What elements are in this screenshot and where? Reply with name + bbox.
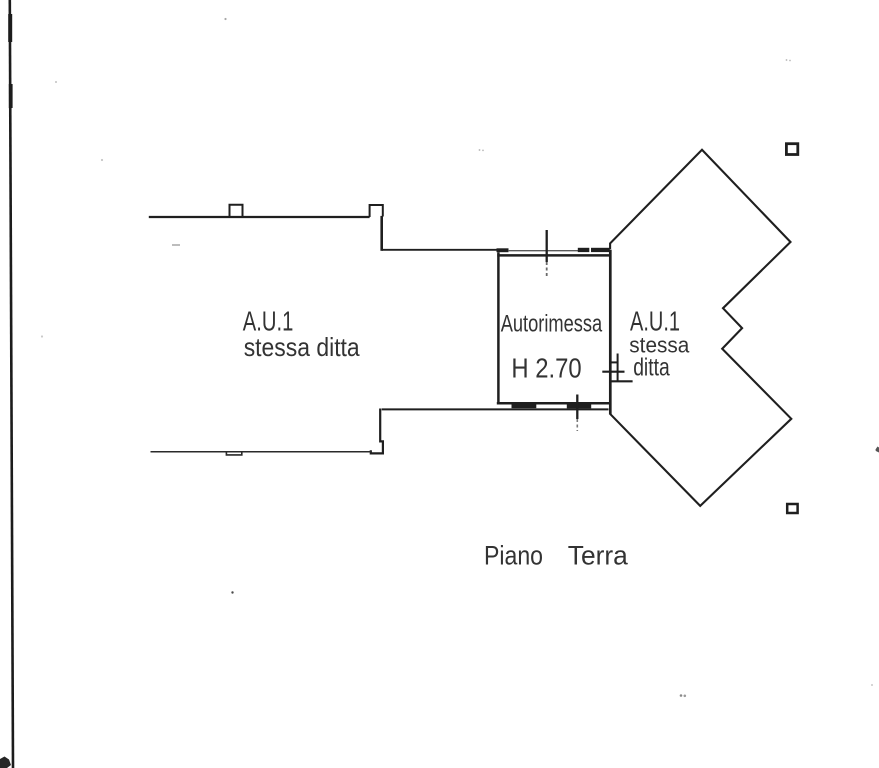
svg-text:ditta: ditta bbox=[633, 354, 670, 382]
right wing outline bbox=[610, 150, 791, 506]
section tick top bbox=[546, 230, 548, 262]
marker square top bbox=[786, 144, 797, 155]
svg-text:Autorimessa: Autorimessa bbox=[501, 311, 603, 338]
top room: top wall bbox=[149, 216, 370, 218]
garage right wall bbox=[609, 250, 612, 415]
svg-text:H 2.70: H 2.70 bbox=[511, 352, 581, 383]
wall blob at garage top-left bbox=[497, 248, 509, 252]
svg-text:Terra: Terra bbox=[568, 540, 629, 570]
garage bottom wall bbox=[497, 402, 611, 405]
wall to garage, upper line bbox=[382, 249, 498, 251]
bottom room: bottom wall bbox=[151, 451, 372, 453]
wall fill bottom right bbox=[567, 403, 591, 408]
top room: door notch left bbox=[230, 205, 243, 217]
faint top line over garage bbox=[508, 250, 578, 252]
stray dots bottom middle bbox=[680, 694, 683, 697]
step symbol bar 2 bbox=[602, 371, 624, 373]
svg-text:stessa ditta: stessa ditta bbox=[244, 332, 360, 362]
step symbol bar 3 bbox=[610, 380, 632, 382]
scan edge line bbox=[10, 0, 13, 768]
stray faint dot left2 bbox=[41, 335, 43, 337]
stray faint dot left-top bbox=[55, 81, 57, 83]
garage left wall bbox=[497, 252, 500, 404]
marker square bottom bbox=[787, 504, 797, 513]
bottom room: right wall jog bbox=[371, 409, 383, 454]
stray dot bottom-left area bbox=[231, 591, 233, 593]
step symbol bar 1 bbox=[609, 361, 618, 363]
stray faint dots mid-top bbox=[479, 149, 481, 151]
svg-text:Piano: Piano bbox=[484, 540, 543, 570]
garage top wall bbox=[497, 254, 611, 257]
top room: right wall bbox=[380, 216, 383, 251]
stray faint dot top bbox=[224, 18, 226, 20]
wall fill top right bbox=[591, 248, 610, 252]
bottom room: door notch down bbox=[226, 452, 241, 455]
section tick bottom bbox=[576, 395, 578, 420]
scan corner blob bottom-left bbox=[0, 757, 11, 768]
step symbol vertical bbox=[617, 354, 619, 383]
section tick bottom faint tail bbox=[576, 419, 578, 431]
stray faint dots right-top bbox=[786, 59, 788, 61]
section tick top faint tail bbox=[546, 262, 548, 278]
stray faint dot right-low bbox=[871, 684, 873, 686]
wall fill top mid bbox=[578, 248, 590, 252]
stray squiggle right edge bbox=[876, 447, 879, 453]
scan edge blob mid bbox=[9, 84, 13, 108]
scan edge blob upper bbox=[8, 14, 12, 42]
stray faint dot left1 bbox=[101, 159, 103, 161]
top room: door notch right end bbox=[370, 205, 383, 217]
stray faint mark left bbox=[172, 244, 180, 246]
outer bottom line bbox=[382, 408, 609, 410]
wall fill bottom left bbox=[512, 404, 537, 409]
